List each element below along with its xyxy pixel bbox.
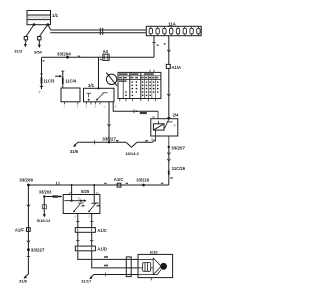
svg-text:3/1: 3/1 [88, 83, 95, 88]
3/1 internal contacts [87, 93, 108, 101]
relay pins [156, 111, 169, 147]
wire left terminal to ground 31/3 [26, 25, 35, 44]
pin mark [43, 59, 102, 62]
svg-text:33/227: 33/227 [102, 137, 116, 142]
relay 2/4 box [151, 119, 178, 136]
wire relay to bottom line [168, 147, 170, 185]
wire 33/204 to connector 11C/3 [41, 57, 43, 89]
twist mark [27, 205, 30, 207]
table middle section dots [132, 81, 138, 96]
svg-text:1/1: 1/1 [52, 13, 59, 18]
marks on pump wires [104, 256, 108, 266]
twist mark [27, 240, 30, 242]
pump 6/10 box [138, 254, 173, 277]
tick on ground line [94, 140, 96, 144]
connector block three wires [126, 257, 131, 277]
pump motor dot [160, 263, 167, 270]
pump internal wires [138, 259, 161, 274]
svg-text:11C/26: 11C/26 [172, 166, 186, 171]
wire right terminal to ground 3/54 [39, 25, 48, 46]
svg-text:2: 2 [39, 90, 41, 94]
ticks [76, 220, 94, 222]
connector 11C/3 [40, 74, 43, 84]
instrument connector table [118, 72, 161, 98]
svg-text:87: 87 [174, 123, 178, 127]
svg-text:33/204: 33/204 [57, 51, 71, 56]
svg-text:33/203: 33/203 [39, 189, 52, 194]
connector square on 3/54 wire [38, 37, 41, 40]
twist mark [167, 152, 170, 154]
svg-text:33/227: 33/227 [31, 248, 45, 253]
connector 11C/4 [61, 71, 64, 89]
svg-text:5/25: 5/25 [81, 189, 90, 194]
terminal right of 1/1 [47, 23, 50, 26]
wire stub arrow into 11C/4 [55, 75, 62, 78]
component 1/1 box [27, 11, 51, 25]
wire 3/1 pin to ground line [108, 102, 110, 143]
pump cylinder [143, 263, 151, 272]
ignition switch 5/25 box [63, 195, 100, 214]
relay contact [165, 119, 173, 128]
table left section dots [125, 91, 127, 96]
connector on wire [42, 205, 46, 209]
relay coil [153, 124, 164, 130]
connector A1/C block [75, 228, 95, 233]
twist mark lower [167, 94, 170, 96]
wire 33/203 to switch [44, 195, 62, 198]
wire 3/1 to relay [113, 102, 158, 112]
connector A1/D block [75, 246, 95, 251]
node 33/216 [142, 184, 145, 187]
connector A1/C on line [117, 183, 121, 187]
svg-text:A1/C: A1/C [97, 228, 107, 233]
wire A1/D to pump feed 2 [92, 251, 138, 268]
table right column separators [145, 76, 156, 99]
dip to 18/14:2 [126, 142, 137, 147]
svg-text:11A: 11A [168, 22, 177, 27]
wire 33/203 down to 5/18:12 [43, 197, 45, 215]
node 33/207 [168, 146, 170, 148]
connector ticks on feed line [100, 28, 102, 35]
arrowhead 5/18:12 [43, 214, 46, 217]
switch blades [73, 203, 100, 212]
left column wire 33/206 down [27, 185, 29, 274]
switch bottom pins [78, 214, 92, 228]
connector square on 31/3 wire [24, 37, 27, 40]
arrowhead 31/6 [73, 144, 76, 147]
wire A1/D to pump feed 1 [78, 251, 138, 260]
table right section dots [142, 81, 159, 96]
ground tail 31/8 [25, 274, 29, 277]
node 33/227 mid [108, 141, 110, 143]
svg-text:31/3: 31/3 [14, 49, 23, 54]
svg-text:A1/D: A1/D [97, 246, 107, 251]
tick [27, 256, 31, 258]
table bottom pins [120, 99, 156, 102]
wire A4 drop into 3/1 [98, 57, 100, 88]
svg-text:18/14:2: 18/14:2 [125, 151, 139, 156]
node 33/206 [27, 184, 30, 187]
light switch icon circle [106, 73, 117, 86]
svg-text:31/8: 31/8 [19, 278, 28, 283]
connector A4 [103, 54, 109, 60]
wires between connectors [78, 232, 92, 246]
svg-text:11C/3: 11C/3 [43, 79, 55, 84]
arrowhead ground 3/54 [38, 45, 41, 48]
svg-text:31/6: 31/6 [70, 149, 79, 154]
ground line to relay pin [137, 140, 156, 143]
svg-text:A1/A: A1/A [172, 65, 182, 70]
svg-text:A1/F: A1/F [15, 227, 25, 232]
node 33/204 [66, 56, 69, 59]
arrowhead into relay [167, 117, 170, 120]
svg-text:3/54: 3/54 [34, 50, 43, 55]
switch 3/1 box [84, 88, 115, 102]
arrowhead ground 31/3 [24, 44, 27, 47]
svg-text:6/10: 6/10 [150, 250, 159, 255]
pump bowtie [153, 258, 160, 275]
connector A1/F [26, 228, 30, 232]
wire feed double line to fuse box [48, 25, 147, 33]
connector A1/A [166, 64, 170, 68]
fuse box 11A [146, 26, 201, 35]
svg-text:A1/C: A1/C [114, 177, 124, 182]
node 33/203 [43, 195, 45, 197]
bottom main line [28, 184, 168, 186]
connector mark on wire [134, 109, 147, 114]
fuse pin ticks [151, 26, 199, 35]
wire fuse to node 33/204 [42, 36, 155, 58]
table header marks [119, 73, 158, 82]
ground return wire 31/17 [90, 275, 138, 278]
switch top pins [72, 185, 95, 203]
ground line 31/6 [74, 142, 126, 145]
table top pins [150, 70, 154, 73]
svg-text:33/207: 33/207 [171, 145, 185, 150]
node at 3/1 top [97, 87, 99, 89]
svg-text:A4: A4 [103, 49, 109, 54]
pin 2 of 11C/3 [40, 86, 43, 88]
3/1 bottom pins [87, 102, 101, 105]
connector 11C/26 [168, 171, 170, 175]
twist mark on A1/A wire [167, 50, 170, 52]
fuses in 11A [149, 28, 200, 34]
wire fuse to A1/A to relay [168, 36, 170, 118]
wire mark [78, 56, 80, 57]
terminal left of 1/1 [33, 23, 36, 26]
lamp unit box left [61, 88, 80, 102]
svg-text:33/216: 33/216 [136, 178, 149, 183]
lamp unit bottom pins [65, 102, 78, 105]
svg-text:30: 30 [152, 115, 156, 119]
switch internal bus [64, 199, 97, 203]
svg-text:5/18:12: 5/18:12 [37, 218, 51, 223]
svg-text:33/206: 33/206 [19, 178, 33, 183]
ticks on bottom line [57, 182, 60, 185]
tick on riser [152, 42, 156, 44]
svg-text:31/17: 31/17 [81, 279, 92, 284]
svg-text:2/4: 2/4 [173, 112, 179, 117]
svg-text:11C/4: 11C/4 [65, 78, 77, 83]
node 33/227 low [27, 248, 30, 251]
